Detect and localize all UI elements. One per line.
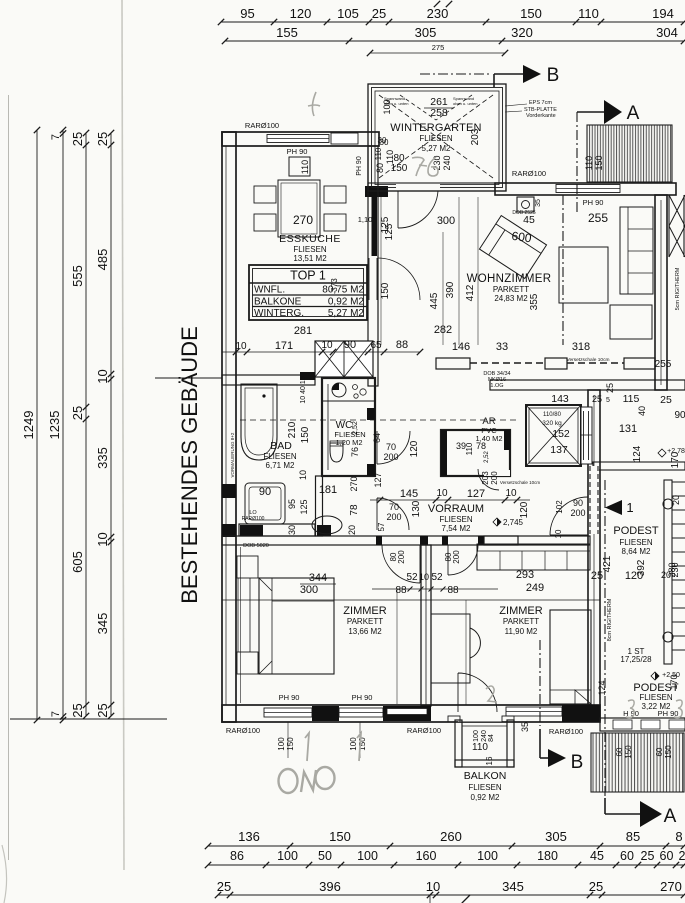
svg-text:oben u. unten: oben u. unten xyxy=(453,101,477,106)
terrace hatch top right xyxy=(587,125,672,182)
svg-text:230: 230 xyxy=(670,562,680,577)
elevator door side xyxy=(581,407,592,464)
svg-text:60: 60 xyxy=(655,747,664,756)
svg-text:8cm RIGITHERM: 8cm RIGITHERM xyxy=(607,598,613,641)
svg-text:8,64 M2: 8,64 M2 xyxy=(622,547,651,556)
leader line to plan xyxy=(155,377,222,379)
svg-text:412: 412 xyxy=(465,284,476,301)
svg-text:300: 300 xyxy=(437,215,455,227)
svg-text:396: 396 xyxy=(319,879,341,894)
wall Essküche/Bad horizontal xyxy=(222,375,315,385)
svg-text:200: 200 xyxy=(452,550,461,564)
svg-text:392: 392 xyxy=(636,559,647,576)
section line B bottom dashdot xyxy=(539,640,541,726)
bed Zimmer 2 xyxy=(550,610,591,704)
svg-text:2,52: 2,52 xyxy=(352,421,359,435)
svg-text:85: 85 xyxy=(626,829,640,844)
svg-text:194: 194 xyxy=(652,6,674,21)
wintergarten door opening xyxy=(396,184,440,190)
svg-text:88: 88 xyxy=(447,585,459,596)
svg-text:25: 25 xyxy=(70,406,85,420)
svg-text:10: 10 xyxy=(95,369,110,383)
svg-text:110: 110 xyxy=(584,156,594,170)
svg-text:45: 45 xyxy=(590,849,604,863)
svg-text:150: 150 xyxy=(520,6,542,21)
svg-text:421: 421 xyxy=(602,555,613,572)
svg-text:445: 445 xyxy=(429,292,440,309)
svg-text:110: 110 xyxy=(578,6,599,21)
bottom extra ticks xyxy=(429,895,431,903)
svg-text:70: 70 xyxy=(386,442,396,452)
svg-text:11,90 M2: 11,90 M2 xyxy=(505,627,538,636)
svg-text:258: 258 xyxy=(430,107,448,119)
svg-text:100: 100 xyxy=(349,737,358,751)
svg-text:RARØ100: RARØ100 xyxy=(245,121,279,130)
svg-text:20: 20 xyxy=(671,495,681,505)
sideboard Wohnzimmer xyxy=(610,305,652,339)
svg-text:110: 110 xyxy=(374,147,383,160)
svg-text:25: 25 xyxy=(592,394,602,404)
bathtub xyxy=(241,384,277,460)
svg-text:100: 100 xyxy=(277,737,286,751)
svg-text:1: 1 xyxy=(626,500,633,515)
svg-text:60: 60 xyxy=(660,849,674,863)
level dashed line xyxy=(240,419,518,421)
svg-text:10: 10 xyxy=(419,572,429,582)
svg-text:RARØ100: RARØ100 xyxy=(226,726,260,735)
wall pier left wall bad xyxy=(222,484,236,498)
svg-text:86: 86 xyxy=(230,849,244,863)
wintergarten roof diagonals dashed xyxy=(379,95,493,178)
svg-text:57: 57 xyxy=(377,522,386,531)
svg-text:485: 485 xyxy=(95,249,110,271)
svg-text:355: 355 xyxy=(529,293,540,310)
svg-text:270: 270 xyxy=(349,476,359,491)
bed Zimmer 1 xyxy=(259,578,334,674)
level mark podest xyxy=(658,449,666,457)
top dim row 2 xyxy=(225,40,684,42)
svg-text:25: 25 xyxy=(641,849,655,863)
svg-text:PODEST: PODEST xyxy=(613,525,659,537)
wall bad east lower xyxy=(316,476,323,536)
svg-text:7: 7 xyxy=(50,711,62,717)
door essk/terrasse arc xyxy=(378,258,420,300)
svg-text:EPS 7cm: EPS 7cm xyxy=(529,100,552,106)
wall Vorraum south xyxy=(222,536,518,545)
svg-text:25: 25 xyxy=(70,132,85,146)
svg-text:200: 200 xyxy=(490,471,499,485)
outer wall Wohnzimmer east xyxy=(655,195,667,390)
svg-text:230: 230 xyxy=(427,6,449,21)
black wall segment vertical xyxy=(372,193,378,256)
svg-text:DOB 5020: DOB 5020 xyxy=(243,543,269,549)
elevator shaft xyxy=(526,405,581,466)
svg-text:270: 270 xyxy=(660,879,682,894)
desk Zimmer 2 xyxy=(431,614,470,683)
svg-text:150: 150 xyxy=(391,163,408,174)
svg-text:125: 125 xyxy=(299,499,309,514)
svg-text:PARKETT: PARKETT xyxy=(493,285,529,294)
svg-text:305: 305 xyxy=(415,25,437,40)
svg-text:30: 30 xyxy=(378,136,387,145)
svg-text:+2,78: +2,78 xyxy=(667,448,685,455)
svg-text:16: 16 xyxy=(485,756,494,765)
room WC walls xyxy=(322,378,375,476)
TOP 1 data table xyxy=(249,265,367,320)
section line B top dashdot xyxy=(420,73,492,75)
svg-text:17,25/28: 17,25/28 xyxy=(620,655,652,664)
wall Bad south xyxy=(239,524,315,536)
svg-text:25: 25 xyxy=(660,394,672,406)
zimmer dim extension lines xyxy=(396,589,398,704)
svg-text:203: 203 xyxy=(470,128,481,145)
window bottom 2 xyxy=(339,708,383,717)
svg-text:155: 155 xyxy=(276,25,298,40)
svg-text:293: 293 xyxy=(516,569,534,581)
WC basin xyxy=(332,383,346,397)
terrace door opening lines xyxy=(368,258,370,300)
svg-text:210: 210 xyxy=(287,421,298,438)
svg-text:125: 125 xyxy=(384,223,395,240)
svg-text:90: 90 xyxy=(344,339,356,351)
svg-text:203: 203 xyxy=(481,471,490,485)
svg-text:VORMAUERUNG 8+2: VORMAUERUNG 8+2 xyxy=(230,432,235,477)
svg-text:102: 102 xyxy=(555,500,564,514)
svg-text:WINTERG.: WINTERG. xyxy=(254,308,304,319)
pencil marks 7 and 6 in wintergarten xyxy=(412,157,427,176)
svg-text:BALKONE: BALKONE xyxy=(254,297,302,308)
svg-text:20: 20 xyxy=(347,525,357,535)
svg-text:ZIMMER: ZIMMER xyxy=(499,605,542,617)
svg-text:88: 88 xyxy=(396,339,408,351)
svg-text:1,10: 1,10 xyxy=(358,215,373,224)
wardrobe Zimmer 2 top xyxy=(477,544,590,570)
svg-text:275: 275 xyxy=(432,43,445,52)
svg-text:PH 90: PH 90 xyxy=(287,147,308,156)
svg-text:50: 50 xyxy=(318,849,332,863)
svg-text:RARØ100: RARØ100 xyxy=(512,169,546,178)
svg-text:110: 110 xyxy=(300,160,310,174)
svg-text:255: 255 xyxy=(588,211,608,225)
svg-text:120: 120 xyxy=(409,440,420,457)
wall podest bottom xyxy=(600,718,685,731)
pier bottom right corner xyxy=(562,705,600,722)
svg-text:90: 90 xyxy=(674,410,685,421)
svg-text:FLIESEN: FLIESEN xyxy=(419,134,453,143)
svg-text:390: 390 xyxy=(445,281,456,298)
window top wall 1 xyxy=(267,135,329,143)
svg-text:95: 95 xyxy=(240,6,254,21)
sofa tilted Wohnzimmer xyxy=(479,216,546,279)
svg-text:120: 120 xyxy=(519,501,530,518)
svg-text:FLIESEN: FLIESEN xyxy=(468,783,502,792)
left dim total 1249 xyxy=(36,130,38,720)
staircase treads xyxy=(672,481,685,483)
svg-text:5,27 M2: 5,27 M2 xyxy=(422,144,451,153)
svg-text:10: 10 xyxy=(321,340,333,351)
svg-text:115: 115 xyxy=(623,393,640,405)
svg-text:A: A xyxy=(664,806,677,827)
svg-text:24,83 M2: 24,83 M2 xyxy=(494,294,528,303)
table Wohnzimmer xyxy=(559,247,608,303)
PH box window marker xyxy=(289,157,310,176)
door zimmer1 arc xyxy=(382,545,420,583)
section arrow B top xyxy=(523,65,541,83)
svg-text:120: 120 xyxy=(290,6,312,21)
pencil ONO xyxy=(279,767,335,793)
svg-text:136: 136 xyxy=(238,829,260,844)
svg-text:255: 255 xyxy=(655,359,672,370)
svg-text:300: 300 xyxy=(300,584,318,596)
svg-text:A: A xyxy=(627,103,640,124)
top small dim 275 xyxy=(370,52,505,54)
svg-text:WINTERGARTEN: WINTERGARTEN xyxy=(390,122,481,134)
svg-text:146: 146 xyxy=(452,341,470,353)
svg-text:ZIMMER: ZIMMER xyxy=(343,605,386,617)
svg-text:Versetzschale 10cm: Versetzschale 10cm xyxy=(567,357,610,363)
svg-text:110: 110 xyxy=(472,742,488,753)
svg-text:FLIESEN: FLIESEN xyxy=(293,245,327,254)
pencil mark 4 xyxy=(308,92,320,116)
svg-text:373: 373 xyxy=(330,278,339,292)
window top wall 2 xyxy=(331,133,358,144)
svg-text:10: 10 xyxy=(426,879,440,894)
svg-text:137: 137 xyxy=(550,444,568,456)
svg-text:80,75 M2: 80,75 M2 xyxy=(322,285,364,296)
wintergarten glass walls xyxy=(368,84,506,191)
svg-text:TOP 1: TOP 1 xyxy=(290,269,326,283)
svg-text:240: 240 xyxy=(481,730,488,742)
outer wall bottom xyxy=(222,705,600,722)
stair hatch bottom right xyxy=(591,733,684,792)
wardrobe Wohnzimmer right xyxy=(620,207,653,294)
svg-text:RARØ100: RARØ100 xyxy=(549,727,583,736)
svg-text:80: 80 xyxy=(375,163,385,173)
bottom dim row 2 xyxy=(208,864,684,866)
left dim chain a xyxy=(85,133,87,716)
door opening zimmer2 xyxy=(448,537,478,544)
svg-text:7: 7 xyxy=(50,134,62,140)
svg-text:320: 320 xyxy=(511,25,533,40)
svg-text:152: 152 xyxy=(552,428,570,440)
svg-text:64: 64 xyxy=(372,433,382,443)
svg-text:105: 105 xyxy=(337,6,359,21)
svg-text:10: 10 xyxy=(436,488,448,499)
paper corner curl xyxy=(2,845,7,903)
svg-text:78: 78 xyxy=(349,504,360,516)
balkon inner line xyxy=(448,716,460,722)
svg-text:181: 181 xyxy=(319,484,337,496)
neighbor hatch top far right xyxy=(669,195,685,226)
svg-text:0,92 M2: 0,92 M2 xyxy=(328,297,365,308)
outer wall left xyxy=(222,132,236,722)
top page tick marks xyxy=(434,1,440,7)
wall between Zimmer rooms xyxy=(421,545,431,706)
section line A top dashdot xyxy=(576,112,578,214)
furniture Essküche table xyxy=(278,180,320,237)
zimmer door dim line xyxy=(372,588,498,590)
svg-text:200: 200 xyxy=(397,550,406,564)
svg-text:270: 270 xyxy=(293,213,313,227)
section line A bottom dashdot xyxy=(604,480,606,796)
svg-text:127: 127 xyxy=(373,472,383,487)
svg-text:124: 124 xyxy=(632,445,643,462)
svg-text:180: 180 xyxy=(537,849,558,863)
svg-text:52: 52 xyxy=(406,572,418,583)
paper fold line xyxy=(122,0,124,870)
svg-text:PH 90: PH 90 xyxy=(352,693,373,702)
door WC/corridor arc xyxy=(377,431,410,464)
wall pier wintergarten left base xyxy=(365,186,388,197)
svg-text:320 kg: 320 kg xyxy=(542,420,562,427)
left dim chain b xyxy=(110,133,112,716)
svg-text:345: 345 xyxy=(502,879,524,894)
svg-text:143: 143 xyxy=(551,393,569,405)
svg-text:60: 60 xyxy=(620,849,634,863)
svg-text:100: 100 xyxy=(357,849,378,863)
svg-text:305: 305 xyxy=(545,829,567,844)
toilet xyxy=(330,443,343,462)
window bottom 1 xyxy=(264,708,312,717)
svg-text:555: 555 xyxy=(70,265,85,287)
svg-text:200: 200 xyxy=(383,452,398,462)
paper left edge xyxy=(8,95,10,860)
svg-text:10: 10 xyxy=(298,470,308,480)
svg-text:150: 150 xyxy=(286,737,295,751)
svg-text:25: 25 xyxy=(217,879,231,894)
shower tray xyxy=(245,483,285,524)
balkon walls xyxy=(455,720,462,767)
svg-text:76: 76 xyxy=(350,447,360,457)
bottom dim row 3 xyxy=(218,894,684,896)
svg-text:2,745: 2,745 xyxy=(503,518,524,527)
svg-text:PH 90: PH 90 xyxy=(279,693,300,702)
entrance door dashed xyxy=(589,466,599,534)
section line mid dashdot xyxy=(562,195,564,345)
svg-text:PARKETT: PARKETT xyxy=(347,617,383,626)
svg-text:240: 240 xyxy=(442,155,452,170)
svg-text:150: 150 xyxy=(300,426,311,443)
svg-text:FLIESEN: FLIESEN xyxy=(619,538,653,547)
svg-text:150: 150 xyxy=(664,745,673,759)
door zimmer2 arc xyxy=(448,545,478,575)
svg-text:10: 10 xyxy=(554,529,563,538)
svg-text:RARØ100: RARØ100 xyxy=(407,726,441,735)
svg-text:BAD: BAD xyxy=(270,440,292,452)
svg-text:200: 200 xyxy=(386,512,401,522)
svg-text:318: 318 xyxy=(572,341,590,353)
svg-text:FLIESEN: FLIESEN xyxy=(439,515,473,524)
svg-text:260: 260 xyxy=(440,829,462,844)
svg-text:60: 60 xyxy=(615,747,624,756)
svg-text:304: 304 xyxy=(656,25,678,40)
svg-text:30: 30 xyxy=(287,525,297,535)
svg-text:90: 90 xyxy=(259,486,271,498)
WC inner partition xyxy=(327,384,329,470)
svg-text:40: 40 xyxy=(637,406,647,416)
svg-text:0,92 M2: 0,92 M2 xyxy=(471,793,500,802)
svg-text:605: 605 xyxy=(70,551,85,573)
door bad arc xyxy=(377,498,409,530)
svg-text:95: 95 xyxy=(287,499,297,509)
svg-text:1.OG: 1.OG xyxy=(490,383,503,389)
AR door opening xyxy=(484,470,510,476)
chair Zimmer 2 xyxy=(470,628,480,658)
svg-text:B: B xyxy=(547,65,560,86)
stair handrail xyxy=(664,480,672,664)
svg-text:25: 25 xyxy=(589,879,603,894)
svg-text:150: 150 xyxy=(329,829,351,844)
svg-text:25: 25 xyxy=(95,132,110,146)
svg-text:10 40 10: 10 40 10 xyxy=(300,376,307,403)
svg-text:10: 10 xyxy=(505,488,517,499)
svg-text:335: 335 xyxy=(95,447,110,469)
svg-text:100: 100 xyxy=(277,849,298,863)
door wintergarten arc xyxy=(398,191,438,228)
svg-text:1,20 M2: 1,20 M2 xyxy=(335,438,362,447)
pier bottom 2 xyxy=(383,706,431,721)
window in terrace wall xyxy=(556,185,620,193)
svg-text:110/80: 110/80 xyxy=(543,412,562,418)
svg-text:127: 127 xyxy=(467,488,485,500)
svg-text:25: 25 xyxy=(372,6,386,21)
svg-text:1235: 1235 xyxy=(47,411,62,440)
svg-text:WNFL.: WNFL. xyxy=(254,285,285,296)
svg-text:PH 90: PH 90 xyxy=(583,198,604,207)
svg-text:6,71 M2: 6,71 M2 xyxy=(266,461,295,470)
window bottom 3 (zimmer2) xyxy=(506,707,562,716)
svg-text:8: 8 xyxy=(675,829,682,844)
svg-text:160: 160 xyxy=(416,849,437,863)
door opening zimmer1 xyxy=(382,537,420,544)
wall essk/wintergarten vertical xyxy=(368,146,378,386)
svg-text:BESTEHENDES GEBÄUDE: BESTEHENDES GEBÄUDE xyxy=(177,326,202,604)
svg-text:VORRAUM: VORRAUM xyxy=(428,503,484,515)
svg-text:170: 170 xyxy=(669,674,679,689)
svg-text:100: 100 xyxy=(473,730,480,742)
svg-text:PARKETT: PARKETT xyxy=(503,617,539,626)
svg-text:10: 10 xyxy=(95,532,110,546)
svg-text:150: 150 xyxy=(594,155,604,170)
chairs xyxy=(254,186,276,203)
svg-text:110: 110 xyxy=(465,442,474,455)
svg-text:124: 124 xyxy=(597,680,607,695)
vorraum dim row xyxy=(370,499,530,501)
svg-text:PH 90: PH 90 xyxy=(356,156,363,176)
svg-text:Versetzschale 10cm: Versetzschale 10cm xyxy=(500,480,541,485)
wall lining zimmer1 xyxy=(240,547,242,703)
pencil 1 marks xyxy=(305,733,309,761)
svg-text:171: 171 xyxy=(275,340,293,352)
section arrow B bottom xyxy=(539,729,541,758)
outer wall top (Essküche) xyxy=(222,132,379,146)
svg-text:13,66 M2: 13,66 M2 xyxy=(348,627,382,636)
balkon door opening xyxy=(458,707,502,722)
svg-text:WOHNZIMMER: WOHNZIMMER xyxy=(467,273,552,285)
svg-text:145: 145 xyxy=(400,488,418,500)
svg-text:88: 88 xyxy=(395,585,407,596)
svg-text:90: 90 xyxy=(573,498,583,508)
wall podest top xyxy=(593,462,685,470)
washbasin bad xyxy=(312,516,342,534)
wall Wohnzimmer/elevator xyxy=(490,380,685,390)
svg-text:281: 281 xyxy=(294,325,312,337)
wall vorraum south east part xyxy=(484,536,590,545)
svg-text:35: 35 xyxy=(520,722,530,732)
svg-text:25: 25 xyxy=(605,383,615,393)
room AR walls xyxy=(441,430,510,476)
door corridor/AR arc xyxy=(478,469,499,490)
